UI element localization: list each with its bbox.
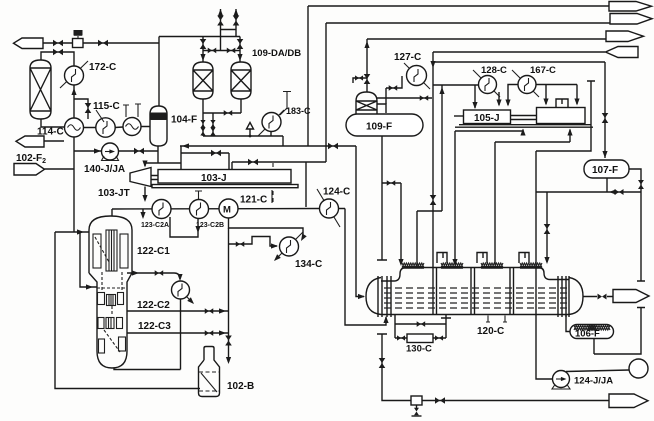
svg-text:128-C: 128-C [481, 65, 507, 76]
svg-text:114-C: 114-C [37, 127, 64, 138]
svg-text:183-C: 183-C [286, 106, 311, 116]
svg-text:134-C: 134-C [295, 259, 322, 270]
svg-text:109-DA/DB: 109-DA/DB [252, 48, 301, 59]
svg-text:140-J/JA: 140-J/JA [84, 164, 125, 175]
svg-text:124-C: 124-C [323, 187, 350, 198]
svg-text:130-C: 130-C [406, 344, 432, 355]
svg-text:172-C: 172-C [89, 62, 116, 73]
svg-text:106-F: 106-F [575, 329, 600, 340]
svg-text:102-B: 102-B [227, 381, 254, 392]
svg-text:123-C2A: 123-C2A [141, 222, 169, 229]
svg-text:107-F: 107-F [592, 165, 618, 176]
svg-text:109-F: 109-F [366, 122, 392, 133]
svg-text:103-J: 103-J [201, 173, 227, 184]
svg-text:104-F: 104-F [171, 115, 197, 126]
svg-text:122-C3: 122-C3 [138, 321, 171, 332]
svg-text:115-C: 115-C [93, 101, 120, 112]
svg-text:102-F2: 102-F2 [16, 153, 46, 165]
svg-text:105-J: 105-J [474, 113, 500, 124]
svg-text:127-C: 127-C [394, 52, 421, 63]
svg-text:M: M [223, 205, 231, 216]
svg-text:103-JT: 103-JT [98, 188, 130, 199]
svg-text:120-C: 120-C [477, 326, 504, 337]
svg-text:167-C: 167-C [530, 65, 556, 76]
svg-text:122-C2: 122-C2 [137, 300, 170, 311]
svg-text:123-C2B: 123-C2B [196, 222, 224, 229]
svg-text:121-C: 121-C [240, 195, 267, 206]
svg-text:122-C1: 122-C1 [137, 246, 170, 257]
svg-text:124-J/JA: 124-J/JA [574, 376, 613, 387]
